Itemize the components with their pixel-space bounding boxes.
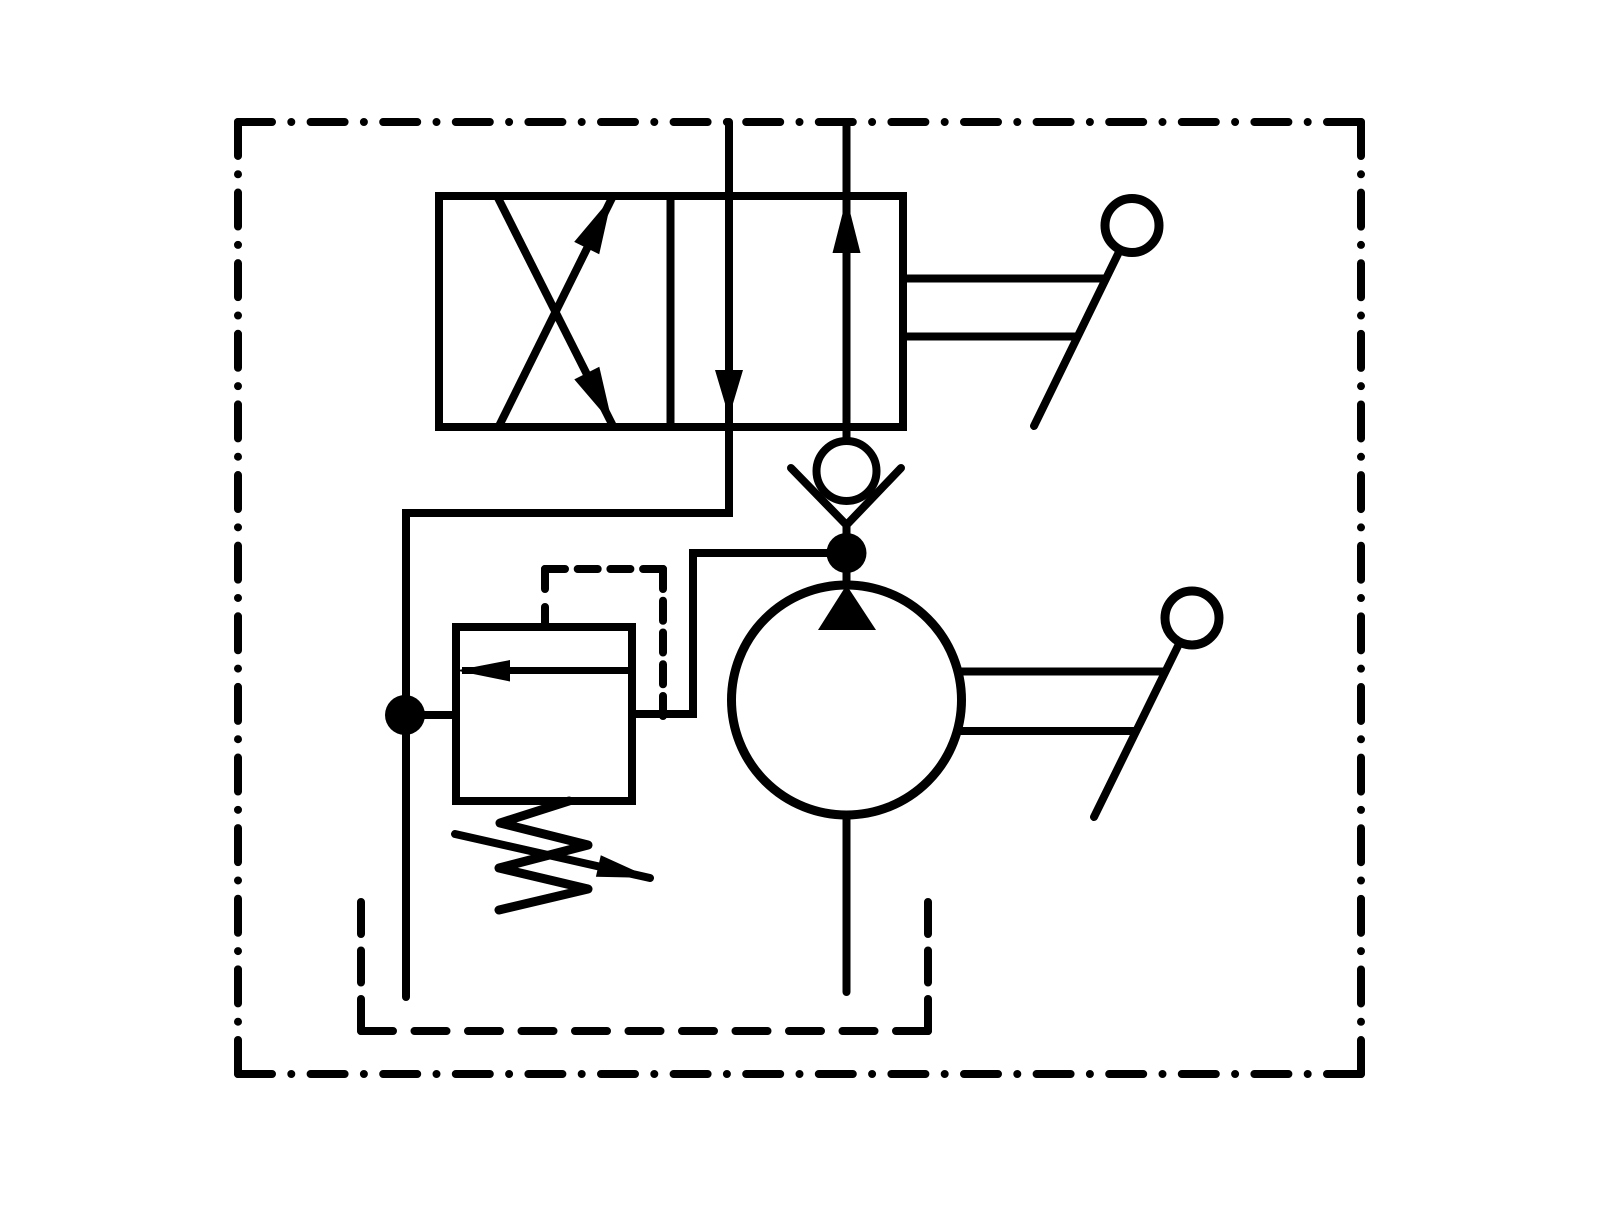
wire: pump suction line [843,815,851,992]
wire: check valve to junction [843,521,851,586]
arrowhead up on port line x=846 [833,198,861,253]
spring adjustment arrowhead [596,855,651,878]
valve crossed-path line A (top-left to bottom-right) [497,196,613,426]
tank (dashed reservoir box) [361,902,928,1031]
arrowhead on line A (down-right) [574,367,612,424]
pump lever arm [1094,646,1178,817]
check valve circle [817,441,877,501]
relief valve internal arrowhead (left) [456,660,510,682]
pilot line (dashed) from relief valve top [541,569,549,627]
junction node at pump outlet [827,533,867,573]
wire: junction to relief valve inlet [404,711,456,719]
pump lever knob [1165,591,1219,645]
relief valve internal flow arrow line [462,667,632,674]
pump circle [732,585,962,815]
arrowhead down on port line x=729 [715,370,743,417]
junction node on left pressure line [385,695,425,735]
valve lever link lines [903,275,1108,283]
wire: port P line through right valve section down to elbow [406,122,729,997]
relief valve spring [499,801,588,910]
valve crossed-path line B (bottom-left to top-right) [499,198,612,426]
directional valve body (4/2 lever valve) [439,196,903,427]
spring adjustment arrow shaft [455,834,650,878]
pump lever link lines [958,668,1168,676]
wire: relief valve outlet to pump junction [632,553,847,714]
pilot line down to outlet [659,569,667,716]
relief valve body [456,627,632,801]
pump flow direction triangle [818,585,876,630]
enclosure boundary (dash-dot frame) [238,122,1361,1074]
wire: port line x=846 from boundary through valve to check valve [843,122,851,438]
pilot line horizontal [545,565,663,573]
arrowhead on line B (up-right) [574,197,612,254]
valve section divider [667,196,675,427]
check valve seat (V) [791,468,901,525]
valve lever knob [1105,199,1159,253]
valve lever arm [1034,254,1118,426]
